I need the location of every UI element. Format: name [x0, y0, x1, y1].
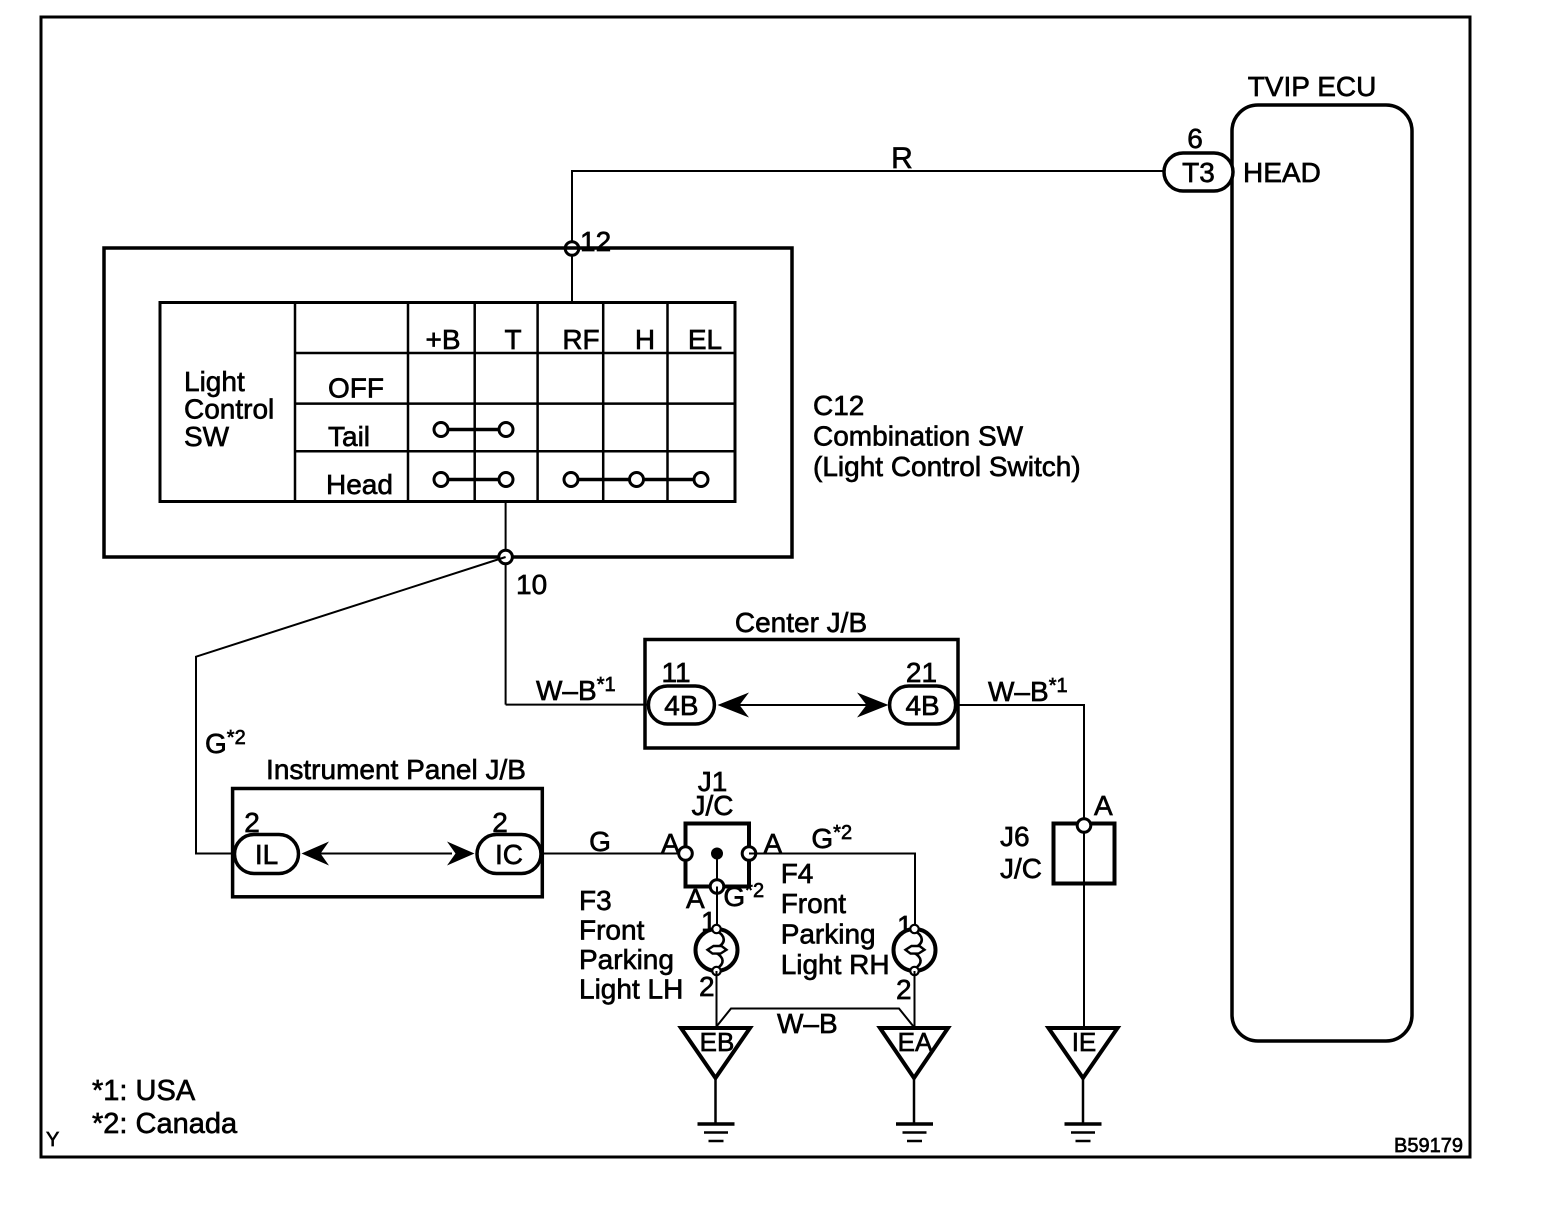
svg-text:RF: RF	[562, 324, 599, 355]
svg-text:Parking: Parking	[781, 919, 876, 950]
wire node 10 to Center J/B	[506, 704, 648, 706]
lamp F4 Front Parking Light RH	[894, 925, 936, 975]
svg-text:10: 10	[516, 569, 547, 600]
svg-text:*1: USA: *1: USA	[92, 1075, 196, 1107]
ground IE	[1049, 1027, 1118, 1141]
Head row contact bar RF to EL	[571, 478, 701, 482]
svg-text:A: A	[1094, 790, 1113, 821]
node 12	[565, 242, 579, 256]
wire center dot to bottom node	[716, 854, 718, 887]
node A bottom on J1	[710, 880, 724, 894]
svg-text:HEAD: HEAD	[1243, 157, 1321, 188]
junction connector J6 J/C box	[1054, 824, 1115, 884]
wire F4 to ground EA	[914, 971, 916, 1029]
Tail row contact bar	[441, 428, 506, 432]
junction connector J1 J/C box	[686, 824, 750, 887]
wire W-B link between EB and EA	[717, 1009, 914, 1027]
svg-text:EA: EA	[898, 1027, 933, 1057]
ECU U1 TVIP ECU box	[1232, 105, 1412, 1041]
wire J1 to F4 lamp	[749, 854, 915, 930]
svg-text:IE: IE	[1072, 1027, 1097, 1057]
svg-text:J/C: J/C	[692, 790, 734, 821]
wire J1 bottom to F3 lamp	[716, 887, 718, 930]
svg-text:6: 6	[1187, 123, 1203, 154]
svg-text:2: 2	[699, 971, 715, 1002]
connector IC	[477, 835, 541, 874]
lamp F3 Front Parking Light LH	[696, 925, 738, 975]
svg-text:F4: F4	[781, 858, 814, 889]
svg-text:2: 2	[896, 974, 912, 1005]
svg-text:Light LH: Light LH	[579, 974, 683, 1005]
svg-text:T: T	[504, 324, 521, 355]
svg-text:T3: T3	[1182, 157, 1215, 188]
svg-text:Y: Y	[46, 1129, 59, 1151]
svg-text:W–B: W–B	[777, 1008, 838, 1039]
svg-text:F3: F3	[579, 885, 612, 916]
node 10	[499, 550, 513, 564]
svg-text:B59179: B59179	[1394, 1135, 1463, 1157]
svg-text:4B: 4B	[905, 690, 939, 721]
svg-text:A: A	[661, 828, 680, 859]
wire IC to J1	[541, 853, 686, 855]
node A on J6	[1077, 819, 1091, 833]
svg-text:Center J/B: Center J/B	[735, 607, 867, 638]
svg-text:IL: IL	[255, 839, 278, 870]
svg-text:11: 11	[661, 657, 690, 688]
svg-text:TVIP ECU: TVIP ECU	[1248, 71, 1377, 102]
svg-text:C12: C12	[813, 390, 864, 421]
svg-text:21: 21	[906, 657, 937, 688]
svg-text:Control: Control	[184, 394, 274, 425]
svg-text:EB: EB	[700, 1027, 735, 1057]
svg-text:J/C: J/C	[1000, 853, 1042, 884]
svg-text:H: H	[635, 324, 655, 355]
connector 4B pin 11	[648, 686, 714, 724]
arrow into 4B (left)	[718, 693, 750, 718]
Head row contact bar +B to T	[441, 478, 506, 482]
svg-text:IC: IC	[495, 839, 523, 870]
svg-text:(Light Control Switch): (Light Control Switch)	[813, 451, 1081, 482]
connector 4B pin 21	[890, 686, 956, 724]
connector T3	[1164, 153, 1233, 191]
arrow into IC	[447, 842, 475, 866]
switch C12 outer box	[104, 248, 792, 557]
svg-text:Light: Light	[184, 366, 245, 397]
svg-text:Head: Head	[326, 469, 393, 500]
node A left on J1	[679, 847, 693, 861]
svg-text:Light RH: Light RH	[781, 949, 890, 980]
svg-text:Combination SW: Combination SW	[813, 421, 1024, 452]
svg-text:4B: 4B	[664, 690, 698, 721]
svg-text:EL: EL	[688, 324, 722, 355]
wire R (T3 to node 12)	[572, 171, 1164, 303]
node A right on J1	[742, 847, 756, 861]
svg-text:+B: +B	[425, 324, 460, 355]
svg-text:Front: Front	[781, 888, 847, 919]
wire between IL and IC	[316, 853, 452, 855]
svg-text:SW: SW	[184, 421, 230, 452]
ground EB	[681, 1027, 750, 1141]
wire from T column down through node 10	[505, 502, 507, 705]
svg-text:12: 12	[580, 226, 611, 257]
wire F3 to ground EB	[716, 971, 718, 1029]
arrow into 4B (right)	[857, 693, 889, 718]
table grid lines	[295, 303, 735, 502]
junction block Center J/B box	[645, 640, 958, 749]
switch table frame	[160, 303, 735, 502]
junction block Instrument Panel J/B box	[233, 789, 543, 897]
svg-text:Tail: Tail	[328, 421, 370, 452]
connector IL	[235, 835, 299, 874]
svg-text:Instrument Panel J/B: Instrument Panel J/B	[266, 754, 526, 785]
arrow into IL	[302, 842, 330, 866]
svg-text:Parking: Parking	[579, 944, 674, 975]
ground EA	[880, 1027, 948, 1141]
svg-text:OFF: OFF	[328, 373, 384, 404]
wire between 4B connectors	[739, 704, 867, 706]
svg-text:J6: J6	[1000, 821, 1030, 852]
wire diagonal node 10 to IL	[196, 557, 506, 854]
junction dot in J1	[711, 848, 723, 860]
svg-text:R: R	[891, 142, 913, 175]
wire 4B-21 to J6 to ground IE	[956, 705, 1084, 1029]
svg-text:Front: Front	[579, 915, 645, 946]
svg-text:*2: Canada: *2: Canada	[92, 1108, 238, 1140]
svg-text:G: G	[589, 826, 611, 857]
